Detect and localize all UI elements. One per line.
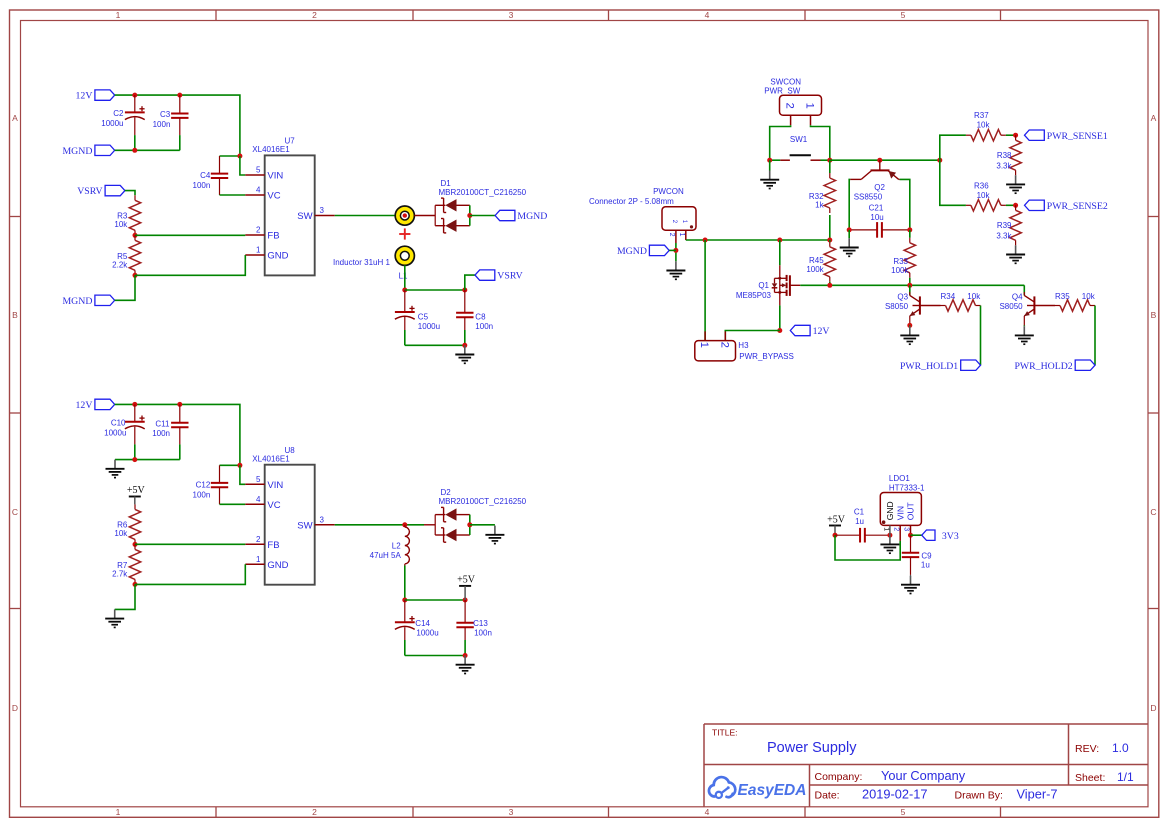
junction C2/MGND row [132,148,137,153]
ground (R39) [1006,245,1025,263]
wire VIN node to U8 pin 5 [240,465,245,484]
ground (SW1) [760,171,779,189]
ground (D2 return) [485,526,504,544]
svg-text:MGND: MGND [62,296,92,307]
junction MGND node [673,248,678,253]
wire bus to H3 pin1 [704,240,706,341]
regulator LDO1 HT7333-1 body [880,474,925,525]
svg-text:Q4: Q4 [1012,293,1023,302]
junction Q3 emitter/ground [907,323,912,328]
U7 pin 5 VIN [245,166,283,182]
svg-text:1000u: 1000u [101,119,123,128]
wire FB net to U7 pin 2 [135,234,245,236]
svg-text:100k: 100k [891,266,909,275]
wire GND return to U7 pin 1 [135,255,245,275]
svg-text:EasyEDA: EasyEDA [738,782,807,799]
svg-text:Inductor 31uH 1: Inductor 31uH 1 [333,258,390,267]
svg-text:MGND: MGND [62,146,92,157]
ground (R38) [1006,175,1025,193]
svg-text:1: 1 [698,342,710,348]
svg-text:1: 1 [882,527,889,531]
svg-text:1.0: 1.0 [1112,741,1129,755]
ground (C21) [840,238,859,256]
U7 pin 4 VC [245,186,280,202]
wire C5/C8 top row [405,289,465,291]
title block [704,724,1148,807]
svg-text:C3: C3 [160,110,171,119]
capacitor C1 1u [835,528,890,543]
ground (Q3) [900,326,919,344]
svg-text:REV:: REV: [1075,743,1099,755]
svg-text:R38: R38 [997,151,1012,160]
wire SW1 left to ground [769,160,771,170]
SWCON pin 2 [784,103,796,126]
svg-text:PWCON: PWCON [653,187,684,196]
op-amp/regulator U7 XL4016E1 body [252,137,314,276]
svg-text:B: B [1151,310,1157,320]
svg-text:1u: 1u [855,517,864,526]
svg-text:5: 5 [256,166,261,175]
svg-text:D2: D2 [441,488,452,497]
wire C5/C8 bottom row [405,344,465,346]
junction 12V/C3 [177,93,182,98]
junction gate bus/R33/Q3 [907,283,912,288]
resistor R39 3.3k [1010,205,1021,245]
resistor R6 10k [129,504,140,544]
diode D2 MBR20100CT_C216250 [435,488,526,542]
svg-text:Power Supply: Power Supply [767,740,857,756]
junction OUT/C9/3V3 [908,533,913,538]
svg-text:Company:: Company: [815,771,863,783]
svg-text:5: 5 [901,10,906,20]
wire +5V to R6 [134,497,136,505]
svg-text:2019-02-17: 2019-02-17 [862,787,927,802]
junction gate bus/R45 [827,283,832,288]
svg-text:3.3k: 3.3k [996,231,1012,240]
svg-text:100n: 100n [193,491,211,500]
svg-text:A: A [1151,113,1157,123]
wire 12V rail to U7 [115,95,240,156]
svg-text:PWR_BYPASS: PWR_BYPASS [739,352,794,361]
junction R3/R5/FB [133,233,138,238]
U7 pin 2 FB [245,226,279,242]
wire SW node to D2 [424,524,435,526]
junction bus/H3 branch [703,238,708,243]
capacitor C14 1000u (polarized) [395,600,415,656]
wire R36 to sense2 node [1006,204,1016,206]
svg-text:3.3k: 3.3k [996,161,1012,170]
svg-text:MBR20100CT_C216250: MBR20100CT_C216250 [439,188,527,197]
capacitor C13 100n [456,600,473,656]
net flag PWR_HOLD2 [1014,360,1095,372]
svg-text:PWR_SENSE2: PWR_SENSE2 [1047,201,1108,212]
ground (C9) [901,576,920,594]
wire OUT to 3V3 flag [911,534,922,536]
junction SW node/L2 [402,522,407,527]
svg-text:4: 4 [256,186,261,195]
U8 pin 2 FB [245,535,279,551]
U8 pin 3 SW [297,515,334,531]
svg-text:R39: R39 [997,221,1012,230]
svg-text:3: 3 [320,515,325,524]
wire SW1 to R32 [829,160,831,173]
svg-text:100n: 100n [152,429,170,438]
wire gate bus [800,284,1024,286]
capacitor C10 1000u (polarized) [125,404,145,459]
svg-text:3: 3 [320,206,325,215]
svg-text:1/1: 1/1 [1117,770,1134,784]
junction 12V node [777,328,782,333]
svg-text:R37: R37 [974,111,989,120]
capacitor C11 100n [171,404,188,459]
wire C12 top to VIN node [220,464,240,466]
svg-text:2: 2 [668,233,675,237]
svg-text:C21: C21 [869,204,884,213]
svg-text:100k: 100k [806,265,824,274]
svg-text:10k: 10k [114,220,128,229]
net flag 12V (bottom block input) [76,399,115,411]
svg-text:S8050: S8050 [999,302,1023,311]
wire D1 to MGND flag [470,215,495,217]
wire R33 bottom to gate bus [909,278,911,286]
junction bus/R32/R45 [827,238,832,243]
svg-text:2: 2 [892,527,899,531]
ground (bottom block output) [456,656,475,674]
junction R7/GND return [133,582,138,587]
junction C21 left [847,227,852,232]
capacitor C8 100n [456,290,473,345]
svg-text:1: 1 [256,246,261,255]
junction D2 anodes [467,522,472,527]
svg-text:C10: C10 [111,419,126,428]
svg-text:1: 1 [116,807,121,817]
wire R34 to PWR_HOLD1 [980,306,982,366]
junction VIN node/C4 [237,154,242,159]
wire 12V node to H3 pin2 [725,331,780,341]
svg-text:10k: 10k [977,121,991,130]
svg-text:GND: GND [885,501,895,520]
svg-text:VIN: VIN [267,480,283,491]
svg-text:1: 1 [804,103,816,109]
inductor L2 47uH 5A [405,525,410,566]
svg-text:2: 2 [256,226,261,235]
svg-text:SS8550: SS8550 [854,192,883,201]
wire GND return to U8 pin 1 [135,564,245,584]
capacitor C9 1u [902,535,919,575]
wire Q3 base to R34 [920,305,941,307]
svg-text:100n: 100n [475,322,493,331]
junction bus/Q1 drain [777,238,782,243]
wire gate bus to Q3 collector [909,285,911,295]
svg-text:+5V: +5V [827,515,846,526]
resistor R33 100k [904,238,915,278]
H3 pin 2 [718,331,730,348]
junction R5/GND return [133,273,138,278]
junction SW1 left [767,158,772,163]
junction U8 VIN node/C12 [237,463,242,468]
junction C8 bottom [462,343,467,348]
svg-text:SW: SW [297,211,312,222]
net flag MGND (divider bottom) [62,295,114,307]
net flag PWR_HOLD1 [900,360,981,372]
svg-text:C1: C1 [854,507,865,516]
wire Q1 source to 12V node [779,305,781,330]
svg-text:12V: 12V [76,400,93,411]
wire C4 top to VIN node [220,155,240,157]
wire R45 bottom to gate bus [829,282,831,286]
wire +5V output row [405,599,465,601]
LDO1 pin 1 GND [882,501,895,535]
wire C4 bottom to U7 pin 4 [220,194,246,196]
capacitor C12 100n [211,465,228,504]
wire Q3 emitter to ground [909,324,911,327]
wire MGND row under C2/C3 [115,149,180,151]
svg-text:SWCON: SWCON [770,77,801,86]
resistor R3 10k [129,195,140,235]
svg-text:FB: FB [267,231,279,242]
junction C10 bottom [132,457,137,462]
svg-text:1: 1 [116,10,121,20]
wire VIN loop to +5V [835,535,900,560]
EasyEDA logo [709,777,806,799]
capacitor C4 100n [211,156,228,195]
svg-text:C8: C8 [475,312,486,321]
diode D1 MBR20100CT_C216250 [435,179,526,233]
svg-text:SW1: SW1 [790,135,808,144]
svg-text:B: B [12,310,18,320]
svg-text:R35: R35 [1055,292,1070,301]
wire VIN node down to U7 pin 5 [240,156,245,175]
wire PWCON pin1 bus [686,239,830,241]
net flag PWR_SENSE1 [1025,130,1108,142]
wire ground row under C10/C11 [115,459,180,461]
svg-text:VC: VC [267,500,280,511]
capacitor C21 10u [849,222,910,238]
ground (PWCON) [666,261,685,279]
wire bus to R45 [829,240,831,242]
PWCON pin 1 [678,230,686,240]
wire C12 bottom to U8 pin 4 [220,503,246,505]
svg-text:1: 1 [678,233,685,237]
wire to VSRV flag [465,275,475,290]
wire PWCON pin2 to MGND [675,243,677,261]
U7 pin 1 GND [245,246,288,262]
wire R37 to sense1 node [1006,134,1016,136]
wire anode rail of D1 [469,205,471,225]
+5V power symbol (output) [457,574,476,586]
+5V power symbol (divider top) [127,485,146,497]
connector PWCON body [589,187,696,230]
svg-text:2.7k: 2.7k [112,570,128,579]
junction SW1 right / R32 top [827,158,832,163]
svg-text:R36: R36 [974,181,989,190]
svg-text:1000u: 1000u [104,429,126,438]
svg-text:100n: 100n [193,181,211,190]
wire to R37 [940,135,966,160]
wire SWCON pin2 to SW1 left [770,125,791,160]
connector H3 PWR_BYPASS body [695,341,794,362]
net flag 12V (top block input) [76,90,115,102]
svg-text:5: 5 [256,475,261,484]
junction Q2 base node [877,158,882,163]
svg-text:D: D [1150,703,1156,713]
connector SWCON PWR_SW body [764,77,821,115]
svg-text:TITLE:: TITLE: [712,728,738,738]
svg-text:C: C [1150,507,1156,517]
svg-text:Q3: Q3 [897,293,908,302]
svg-text:XL4016E1: XL4016E1 [252,145,290,154]
ground (LDO) [880,535,899,553]
svg-text:12V: 12V [813,326,830,337]
svg-text:D: D [12,703,18,713]
svg-text:SW: SW [297,520,312,531]
svg-text:H3: H3 [738,341,749,350]
svg-text:LDO1: LDO1 [889,474,910,483]
ground (Q4) [1015,326,1034,344]
net flag PWR_SENSE2 [1025,200,1108,212]
junction C13 bottom [463,653,468,658]
svg-text:1000u: 1000u [418,322,440,331]
junction C5 top [402,288,407,293]
svg-text:10k: 10k [977,191,991,200]
svg-text:47uH 5A: 47uH 5A [370,551,402,560]
wire C21 left to ground [848,230,850,238]
net flag MGND (after D1) [495,210,547,222]
wire D2 to ground [470,524,495,526]
svg-text:PWR_HOLD2: PWR_HOLD2 [1014,361,1072,372]
svg-text:L1: L1 [399,271,408,280]
svg-text:+5V: +5V [457,574,476,585]
wire R32 bottom to bus [829,215,831,240]
wire to R36 [940,160,966,205]
capacitor C5 1000u (polarized) [395,290,415,345]
svg-text:R33: R33 [893,257,908,266]
junction sense branch node [937,158,942,163]
U7 pin 3 SW [297,206,334,222]
ground (top block output) [455,345,474,363]
U8 pin 1 GND [245,555,288,571]
svg-text:Q1: Q1 [758,281,769,290]
wire gate bus to Q4 collector [1023,285,1025,295]
svg-text:ME85P03: ME85P03 [736,291,772,300]
svg-text:3: 3 [509,807,514,817]
svg-text:XL4016E1: XL4016E1 [252,454,290,463]
resistor R7 2.7k [129,544,140,584]
svg-text:C9: C9 [921,551,932,560]
resistor R5 2.2k [129,235,140,275]
wire Q2 left arm down to C21 [849,179,850,230]
wire R7 bottom to ground [115,584,135,609]
+5V power symbol (LDO input) [827,515,846,536]
LDO1 pin 3 OUT [903,502,916,535]
svg-text:C11: C11 [155,420,170,429]
svg-text:VSRV: VSRV [497,271,522,282]
svg-text:FB: FB [267,540,279,551]
svg-text:100n: 100n [474,628,492,637]
wire switch net to sense divider [830,159,940,161]
svg-text:VSRV: VSRV [77,186,102,197]
polarity + mark [399,228,410,239]
svg-text:10u: 10u [870,213,883,222]
transistor Q4 S8050 [999,292,1034,325]
junction C21 right [907,227,912,232]
wire C14/C13 bottom row [405,655,465,657]
svg-text:5: 5 [901,807,906,817]
wire L2 to C14 node [404,566,406,601]
svg-text:Viper-7: Viper-7 [1017,787,1058,802]
capacitor C2 1000u (polarized) [125,95,145,150]
svg-text:2: 2 [718,342,730,348]
svg-text:1000u: 1000u [416,628,438,637]
svg-text:HT7333-1: HT7333-1 [889,484,925,493]
svg-text:Q2: Q2 [874,183,885,192]
svg-text:PWR_SENSE1: PWR_SENSE1 [1047,131,1108,142]
wire C9 to ground [910,575,912,576]
svg-text:C4: C4 [200,171,211,180]
svg-text:Your Company: Your Company [881,768,966,783]
junction C1/LDO GND [887,533,892,538]
svg-text:1: 1 [256,555,261,564]
U8 pin 4 VC [245,495,280,511]
svg-text:C13: C13 [473,619,488,628]
svg-text:A: A [12,113,18,123]
svg-text:R45: R45 [809,256,824,265]
svg-text:2: 2 [784,103,796,109]
wire bus down to Q1 drain [779,240,781,265]
svg-text:C14: C14 [415,619,430,628]
wire VSRV to R3 [125,191,135,196]
svg-text:Sheet:: Sheet: [1075,772,1105,784]
svg-text:3V3: 3V3 [942,531,959,542]
junction C13 top [463,598,468,603]
svg-text:2: 2 [312,10,317,20]
svg-text:MGND: MGND [617,246,647,257]
svg-text:Date:: Date: [815,790,840,802]
svg-text:C: C [12,507,18,517]
svg-text:MBR20100CT_C216250: MBR20100CT_C216250 [439,497,527,506]
junction C8 top [462,288,467,293]
pad L1 terminal 1 (SW node) [395,206,414,225]
net flag VSRV (output) [475,270,523,282]
svg-text:D1: D1 [441,179,452,188]
svg-text:Connector 2P - 5.08mm: Connector 2P - 5.08mm [589,197,674,206]
svg-text:4: 4 [256,495,261,504]
svg-text:Drawn By:: Drawn By: [955,790,1003,802]
svg-text:MGND: MGND [517,211,547,222]
op-amp/regulator U8 XL4016E1 body [252,446,314,585]
net flag VSRV (feedback) [77,185,125,197]
wire C21 right to R33 [909,230,911,238]
svg-text:GND: GND [267,251,288,262]
junction C14 top [402,598,407,603]
junction 12V/C10 [132,402,137,407]
svg-text:GND: GND [267,560,288,571]
wire pad to D1 [414,215,435,217]
wire U7 SW to pad [335,215,396,217]
wire +5V symbol stem [464,586,466,600]
svg-text:C5: C5 [418,312,429,321]
wire FB net to U8 pin 2 [135,543,245,545]
junction D1 anodes [467,213,472,218]
resistor R37 10k [966,130,1006,141]
wire MGND flag stub [669,249,676,251]
wire Q4 base to R35 [1034,305,1055,307]
wire 12V rail to U8 [115,404,240,465]
svg-text:2: 2 [256,535,261,544]
wire MGND to R5 bottom [115,275,135,300]
resistor R45 100k [824,242,835,282]
net flag 12V (Q1 source) [790,325,829,337]
